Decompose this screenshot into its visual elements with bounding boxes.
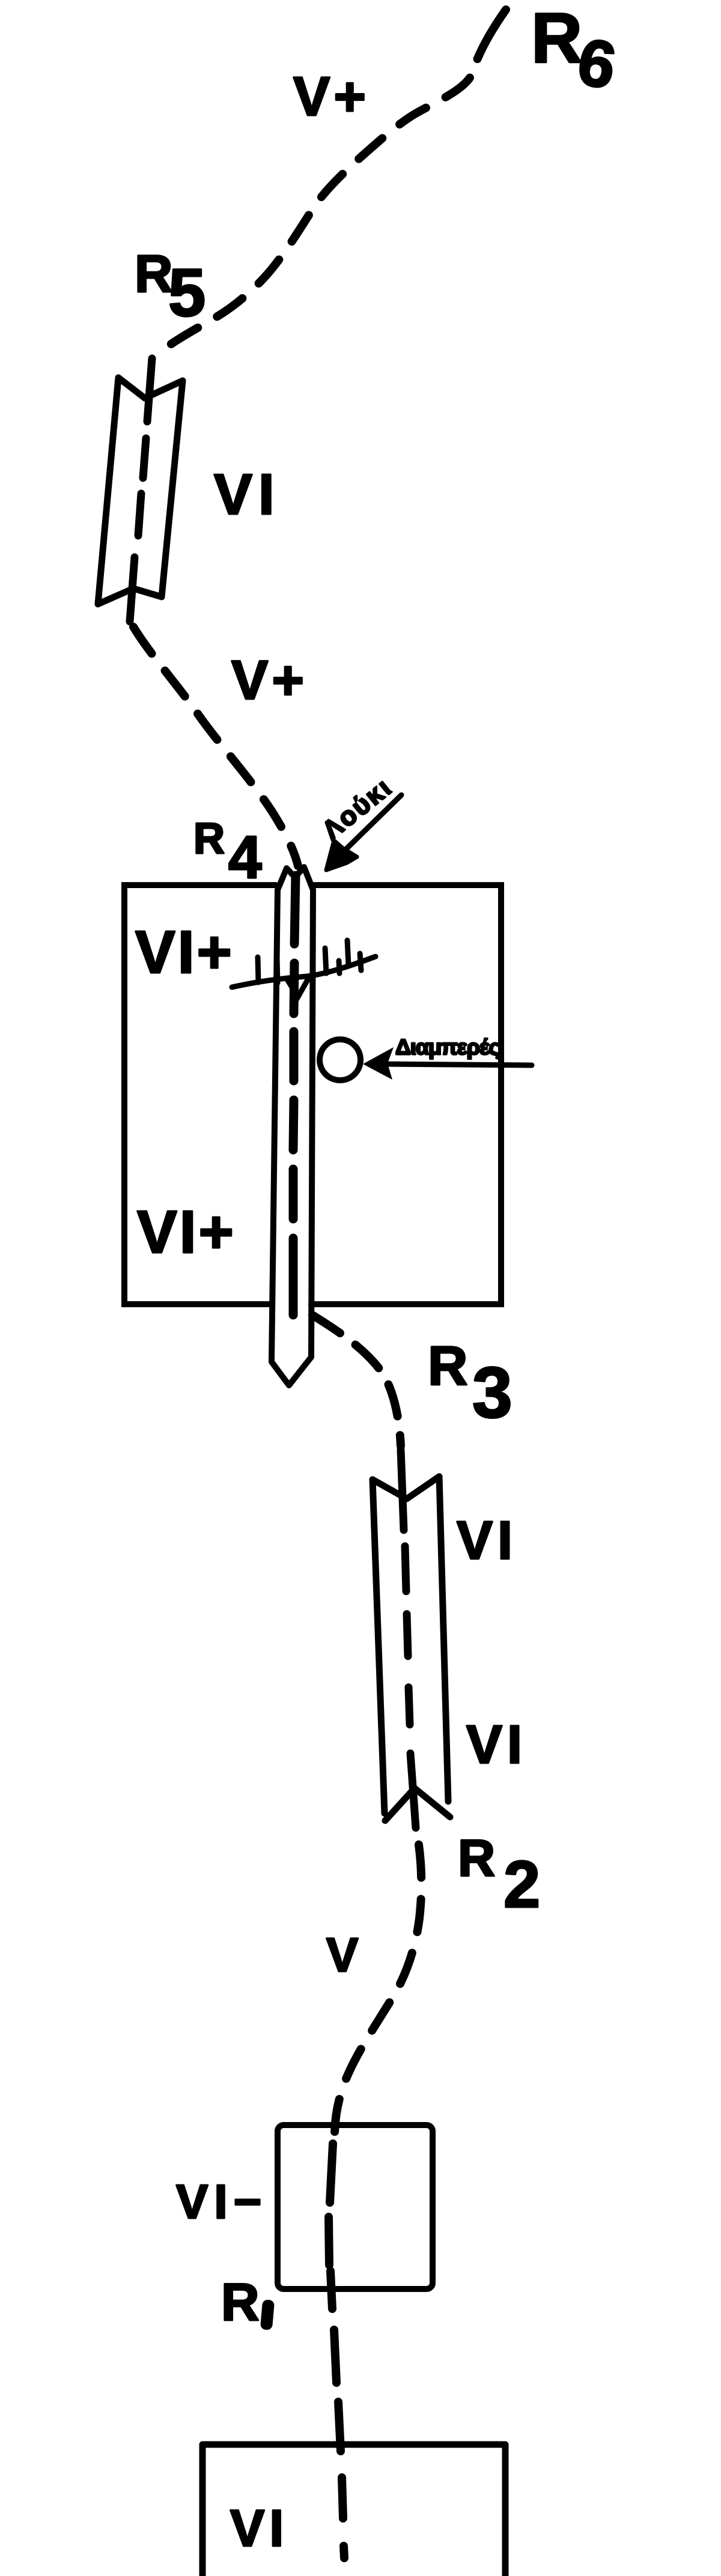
svg-text:R: R — [531, 0, 582, 78]
svg-text:R: R — [221, 2272, 260, 2332]
svg-text:R: R — [428, 1335, 467, 1397]
crux wall box VI- — [278, 2125, 433, 2289]
rock face rectangle — [124, 885, 501, 1304]
route pitch 4 dashed line (R3 to gully exit) — [312, 1315, 401, 1446]
belay label R4 — [193, 815, 262, 891]
route pitch 1 dashed line (start to R1) — [329, 2144, 344, 2558]
svg-text:VI: VI — [466, 1715, 527, 1775]
gully (Λούκι) slot outline — [272, 867, 313, 1385]
chimney symbol 1 outline (pitch 6 start) — [98, 378, 183, 604]
belay label R3 — [428, 1335, 513, 1433]
svg-text:VI+: VI+ — [137, 1199, 236, 1266]
svg-text:R: R — [135, 244, 173, 303]
svg-text:5: 5 — [168, 255, 205, 330]
chimney 1 centre route line — [130, 358, 152, 621]
belay label R5 — [135, 244, 205, 330]
chimney 2 centre route line — [401, 1450, 416, 1828]
svg-text:VI+: VI+ — [135, 919, 234, 986]
tree/bush symbol across the gully — [232, 940, 376, 997]
svg-text:R: R — [193, 815, 225, 863]
svg-text:Διαμπερές: Διαμπερές — [395, 1035, 500, 1059]
belay label R1 — [221, 2272, 275, 2332]
svg-text:VI: VI — [230, 2500, 288, 2557]
belay label R6 — [531, 0, 621, 103]
svg-text:V+: V+ — [231, 650, 308, 711]
svg-text:4: 4 — [228, 824, 262, 891]
svg-text:VI: VI — [214, 462, 281, 527]
svg-text:3: 3 — [472, 1352, 513, 1433]
through-hole circle (Διαμπερές) — [320, 1039, 360, 1080]
route pitch 6 dashed line (R5 to R6) — [155, 10, 506, 356]
svg-text:2: 2 — [503, 1848, 540, 1921]
belay label R2 — [458, 1830, 540, 1921]
route line through gully — [293, 875, 296, 1315]
base wall box VI — [202, 2444, 505, 2576]
svg-text:VI−: VI− — [176, 2175, 267, 2228]
gully annotation arrow — [326, 795, 401, 870]
through-hole annotation arrow — [363, 1047, 532, 1080]
svg-text:VI: VI — [457, 1511, 517, 1571]
route pitch 2 dashed line (R1 to R2) — [335, 1845, 421, 2133]
chimney symbol 2 outline (pitch 3) — [373, 1477, 450, 1821]
svg-text:R: R — [458, 1830, 495, 1887]
route pitch 5 dashed line (R4 to R5) — [133, 627, 298, 866]
svg-text:V: V — [326, 1928, 358, 1982]
svg-text:V+: V+ — [293, 66, 370, 127]
